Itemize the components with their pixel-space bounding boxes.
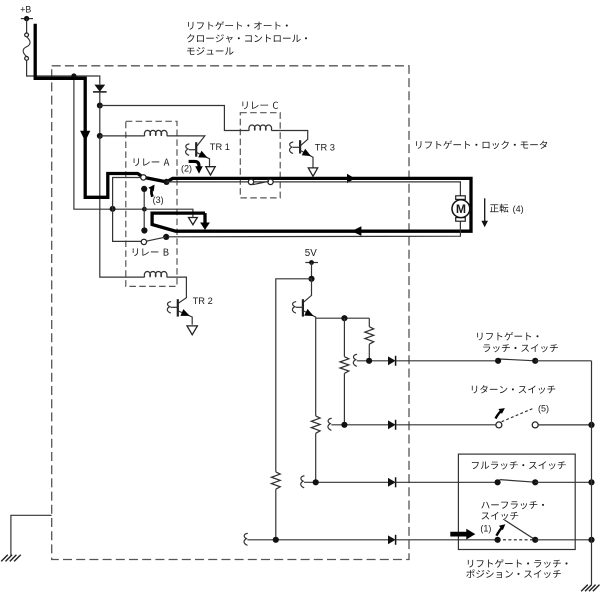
transistor Q4 (sense, NPN): [292, 279, 315, 318]
relay B armature pivot: [163, 234, 169, 240]
forward-rotation arrow (4): [481, 198, 488, 227]
node J11 (R3 to row3): [313, 479, 319, 485]
node J12 (row3-bus): [588, 479, 594, 485]
resistor R2 (row2 pull-up): [340, 318, 349, 425]
wire row3 to full latch switch: [396, 481, 498, 483]
wire row1 to ground bus: [535, 360, 591, 362]
label: TR1: [210, 142, 230, 152]
label: return switch: [472, 385, 555, 394]
relay A NO contact: [141, 186, 147, 192]
wire relay C coil to TR3 collector: [271, 131, 307, 146]
wire row3 to ground bus: [535, 481, 591, 483]
wire module ground: [11, 515, 52, 555]
relay A coil: [144, 130, 167, 136]
wire row2 to ground bus: [538, 424, 591, 426]
relay B armature blade: [146, 237, 166, 241]
svg-text:TR 2: TR 2: [193, 296, 213, 306]
svg-text:+B: +B: [20, 4, 31, 14]
node J14 (row4-bus): [588, 537, 594, 543]
node 5V label: [305, 248, 317, 259]
continuation marker from TR3 emitter (open triangle): [308, 168, 317, 176]
svg-text:5V: 5V: [305, 248, 317, 259]
wire J2 down to J3: [99, 106, 101, 136]
node J10 (row2-bus): [588, 422, 594, 428]
label: TR3: [315, 143, 335, 153]
svg-text:(1): (1): [480, 523, 491, 533]
wire row4 to ground bus: [535, 539, 591, 541]
wire relay A coil to TR1 collector: [167, 136, 205, 146]
label: step (3): [153, 195, 164, 205]
label: relay B: [133, 248, 169, 256]
svg-text:TR 1: TR 1: [210, 142, 230, 152]
node J9 (R2 to row2): [341, 422, 347, 428]
resistor R1 (row1 pull-up): [365, 318, 374, 361]
label: liftgate latch position switch: [466, 559, 567, 578]
transistor TR1 (NPN): [186, 142, 210, 166]
node J3 (relay A coil branch): [97, 133, 103, 139]
return switch SW2 (open, motion dashed): [496, 408, 538, 428]
wire J4 up to relay A NC contact: [113, 178, 141, 209]
bold arrow (5) switch closing motion: [496, 408, 505, 418]
half latch switch SW4 (open, rest position dashed): [495, 520, 539, 543]
relay C coil: [249, 125, 272, 131]
bold arrow half-latch trigger input: [450, 529, 475, 540]
node J2 (relay C branch): [97, 103, 103, 109]
svg-text:TR 3: TR 3: [315, 143, 335, 153]
ground G2 (module ground): [1, 555, 21, 562]
relay B coil: [144, 272, 167, 278]
relay B NO contact: [141, 227, 147, 233]
label: half latch switch: [481, 501, 544, 520]
diode D5: [388, 535, 396, 545]
wire contact column (relay A NO - relay B NO): [143, 189, 145, 231]
harness mark row1: [353, 354, 356, 366]
label: TR2: [193, 296, 213, 306]
resistor R4 (row4 pull-up): [271, 472, 280, 540]
relay C contact b (circle): [268, 179, 273, 184]
relay C dashed box: [240, 113, 280, 198]
node J8 (R1 to row1): [366, 358, 372, 364]
node J6 (5V rail): [308, 276, 314, 282]
node J1 (+B rail split): [71, 73, 76, 78]
relay A/B dashed box: [126, 121, 177, 286]
diode D3: [388, 420, 396, 430]
wire J4 down to relay B NC contact: [113, 209, 142, 242]
bold current path +B to motor and back: [35, 24, 471, 232]
relay A NC contact (circle): [141, 175, 146, 180]
relay B NC contact (circle): [141, 239, 146, 244]
label: step (1): [480, 523, 491, 533]
wire J5 to ground-side marker: [144, 209, 193, 217]
harness mark row3: [301, 476, 304, 488]
node +B label: [20, 4, 31, 14]
wire J2 to relay C coil: [100, 106, 249, 131]
diode D2: [388, 356, 396, 366]
continuation marker from TR2 emitter (open triangle): [187, 326, 197, 335]
wire row4 to diode D5: [247, 539, 388, 541]
node J7 (divider tap): [341, 315, 347, 321]
bold path arrow (down, into module): [80, 131, 90, 142]
bold path end arrow (down at relay B): [200, 213, 210, 230]
wire Q4 emitter rail: [316, 317, 370, 319]
wire J1 down to reverse rail: [74, 76, 144, 209]
wire ground bus (switch common): [591, 361, 593, 585]
wire motor return (thin, motor to relay B): [168, 221, 460, 237]
wire to diode D1: [98, 76, 100, 84]
wire row4 to half latch switch: [396, 539, 498, 541]
bold arrow (1) switch opening motion: [496, 524, 505, 535]
fuse F1: [23, 33, 30, 60]
diode D1 (feed diode, cathode down): [93, 85, 107, 106]
wire J3 down to relay B coil: [100, 136, 145, 277]
svg-text:(5): (5): [538, 404, 549, 414]
wire 5V to Q4: [311, 263, 313, 279]
continuation marker (open triangle) on return path: [189, 218, 198, 225]
relay A armature pivot: [163, 179, 169, 185]
wire 5V rail to left pull resistor: [276, 279, 312, 472]
wire motor feed (thin, relay A to motor): [167, 182, 461, 196]
bold path arrow (right, toward motor): [347, 174, 355, 184]
node +B terminal: [21, 16, 33, 21]
node J13 (R4 to row4): [273, 537, 279, 543]
wire +B to fuse: [26, 19, 28, 33]
continuation marker from TR1 emitter (open triangle): [206, 167, 215, 175]
relay C contact a (circle): [248, 179, 253, 184]
svg-text:(2): (2): [181, 164, 192, 174]
ground G1 (body ground, switches): [581, 585, 599, 592]
label: liftgate latch switch: [477, 332, 558, 352]
wire J3 to relay A coil: [100, 135, 145, 137]
node 5V terminal: [305, 260, 318, 265]
transistor TR3 (NPN): [290, 140, 313, 168]
wire emitter rail down (to R3): [315, 318, 317, 416]
svg-text:(4): (4): [513, 204, 524, 214]
transistor TR2 (NPN): [167, 299, 192, 325]
resistor R3 (row3 pull-up): [311, 416, 320, 482]
wire fuse to junction: [27, 60, 99, 76]
module boundary (liftgate auto-closure control module, dashed): [52, 66, 409, 560]
svg-text:M: M: [456, 202, 466, 216]
label: liftgate lock motor: [416, 140, 547, 149]
svg-text:(3): (3): [153, 195, 164, 205]
diode D4: [388, 477, 396, 487]
wire row2 to diode D3: [331, 424, 388, 426]
latch position switch box: [458, 454, 575, 549]
wire row1 to latch switch: [396, 360, 499, 362]
harness mark row4: [244, 533, 247, 545]
bold arrow (3) relay A armature motion: [148, 185, 154, 197]
label: module name: [187, 21, 307, 55]
wire row2 to return switch: [396, 424, 496, 426]
label: full latch switch: [472, 461, 566, 469]
harness mark row2: [328, 418, 331, 430]
wire row1 to diode D2: [357, 360, 388, 362]
label: forward rotation (4): [490, 204, 524, 214]
label: step (5): [538, 404, 549, 414]
full latch switch SW3 (closed): [495, 479, 539, 485]
relay C switch blade: [253, 181, 269, 184]
motor M1 (liftgate lock motor): [452, 196, 470, 221]
wire row3 to diode D4: [304, 481, 388, 483]
bold path arrow (left, motor return): [352, 226, 362, 236]
liftgate latch switch SW1 (closed): [495, 358, 538, 364]
node J4 (reverse rail to relay B NC): [110, 206, 116, 212]
label: relay A: [134, 158, 170, 166]
bold arrow (2) current into relay A coil path: [189, 161, 203, 173]
label: step (2): [181, 164, 192, 174]
node J5 (rail joins contact column): [142, 207, 147, 212]
wire relay B coil to TR2 collector: [167, 277, 187, 303]
label: relay C: [242, 102, 278, 110]
